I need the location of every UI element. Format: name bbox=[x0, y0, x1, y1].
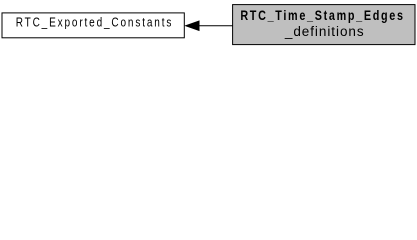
svg-text:RTC_Exported_Constants: RTC_Exported_Constants bbox=[16, 15, 174, 30]
svg-text:_definitions: _definitions bbox=[284, 24, 365, 39]
arrowhead pointing left into RTC_Exported_Constants bbox=[186, 21, 199, 30]
svg-text:RTC_Time_Stamp_Edges: RTC_Time_Stamp_Edges bbox=[240, 8, 404, 23]
wire: dependency edge between grey node and left node bbox=[199, 25, 233, 27]
node RTC_Time_Stamp_Edges_definitions (grey filled current node) bbox=[233, 5, 415, 45]
node RTC_Exported_Constants (white box, black border) bbox=[2, 13, 184, 38]
background bbox=[0, 0, 417, 52]
